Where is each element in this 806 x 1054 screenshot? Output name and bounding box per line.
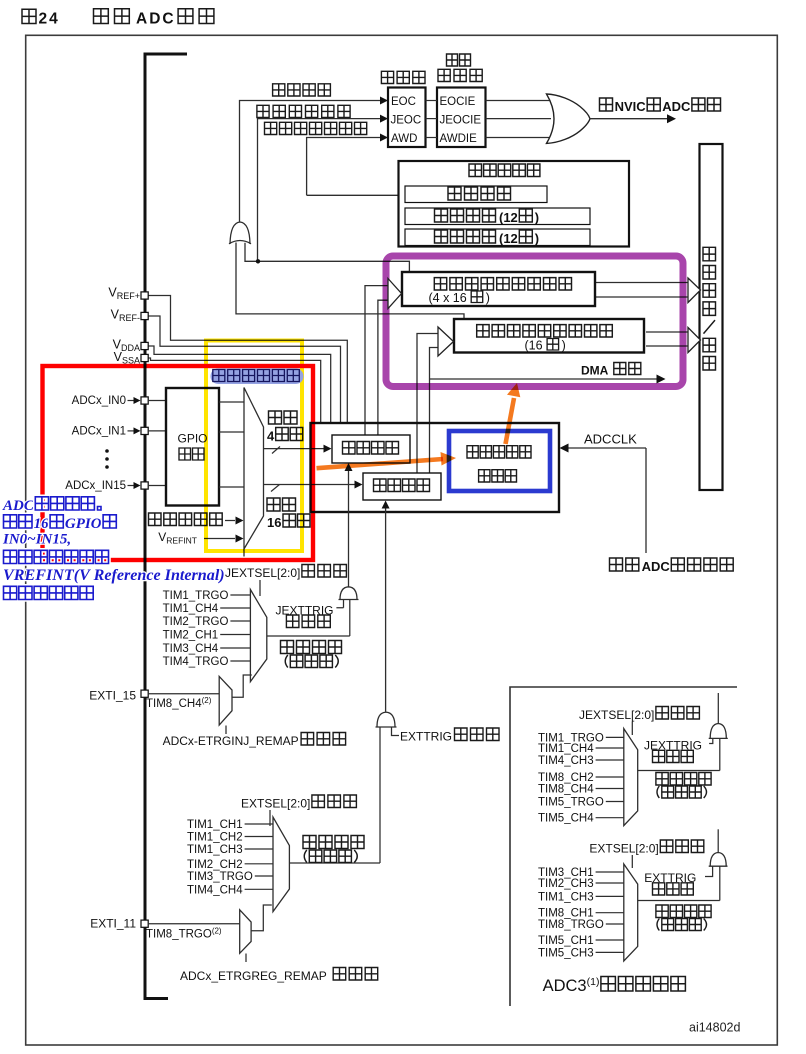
- svg-text:TIM4_CH4: TIM4_CH4: [187, 884, 243, 896]
- svg-text:IN0~IN15,: IN0~IN15,: [2, 532, 71, 548]
- svg-text:(4 x 16: (4 x 16: [429, 291, 467, 305]
- svg-text:EOCIE: EOCIE: [440, 96, 476, 108]
- svg-text:ADC: ADC: [662, 99, 691, 114]
- svg-text:ADC: ADC: [2, 498, 35, 514]
- svg-text:EOC: EOC: [391, 96, 416, 108]
- svg-text:NVIC: NVIC: [615, 99, 647, 114]
- svg-text:ADC: ADC: [136, 11, 176, 28]
- svg-text:ADC: ADC: [642, 559, 671, 574]
- svg-text:GPIO: GPIO: [177, 432, 207, 446]
- svg-text:): ): [562, 339, 566, 353]
- svg-text:TIM4_CH3: TIM4_CH3: [538, 755, 594, 767]
- svg-text:TIM1_CH4: TIM1_CH4: [163, 603, 219, 615]
- svg-text:ADCx-ETRGINJ_REMAP: ADCx-ETRGINJ_REMAP: [163, 734, 299, 748]
- svg-text:24: 24: [39, 11, 60, 28]
- svg-text:TIM1_CH2: TIM1_CH2: [187, 832, 243, 844]
- svg-text:): ): [535, 231, 539, 246]
- svg-text:JEOCIE: JEOCIE: [440, 114, 482, 126]
- svg-text:AWD: AWD: [391, 133, 417, 145]
- svg-text:TIM4_TRGO: TIM4_TRGO: [163, 656, 229, 668]
- svg-text:TIM2_CH2: TIM2_CH2: [187, 859, 243, 871]
- svg-text:TIM3_CH4: TIM3_CH4: [163, 643, 219, 655]
- svg-text:ADCx_IN15: ADCx_IN15: [65, 480, 126, 492]
- svg-text:EXTI_15: EXTI_15: [89, 689, 136, 703]
- svg-text:GPIO: GPIO: [65, 516, 102, 532]
- svg-text:TIM8_CH2: TIM8_CH2: [538, 772, 594, 784]
- svg-text:EXTI_11: EXTI_11: [90, 917, 136, 931]
- svg-text:TIM2_CH3: TIM2_CH3: [538, 878, 594, 890]
- svg-text:TIM1_CH1: TIM1_CH1: [187, 819, 243, 831]
- svg-text:JEXTSEL[2:0]: JEXTSEL[2:0]: [225, 566, 300, 580]
- svg-text:ADCCLK: ADCCLK: [584, 432, 637, 447]
- svg-text:TIM5_CH4: TIM5_CH4: [538, 813, 594, 825]
- svg-text:(16: (16: [525, 339, 543, 353]
- svg-text:TIM2_CH1: TIM2_CH1: [163, 630, 219, 642]
- svg-text:JEXTSEL[2:0]: JEXTSEL[2:0]: [579, 708, 654, 722]
- svg-text:JEOC: JEOC: [391, 114, 422, 126]
- svg-text:TIM8_CH1: TIM8_CH1: [538, 908, 594, 920]
- svg-text:EXTTRIG: EXTTRIG: [400, 730, 452, 744]
- svg-text:TIM8_CH4: TIM8_CH4: [538, 784, 594, 796]
- svg-text:TIM1_CH4: TIM1_CH4: [538, 743, 594, 755]
- svg-text:ai14802d: ai14802d: [689, 1021, 740, 1035]
- svg-text:ADCx_IN1: ADCx_IN1: [72, 425, 126, 437]
- svg-text:TIM1_CH3: TIM1_CH3: [187, 844, 243, 856]
- svg-text:AWDIE: AWDIE: [440, 133, 478, 145]
- svg-text:TIM5_CH3: TIM5_CH3: [538, 947, 594, 959]
- svg-text:16: 16: [34, 516, 50, 532]
- svg-text:EXTSEL[2:0]: EXTSEL[2:0]: [589, 842, 658, 856]
- svg-text:4: 4: [267, 429, 275, 444]
- svg-text:(12: (12: [499, 231, 518, 246]
- svg-text:): ): [535, 210, 539, 225]
- svg-text:16: 16: [267, 515, 281, 530]
- svg-text:TIM2_TRGO: TIM2_TRGO: [163, 616, 229, 628]
- svg-text:TIM5_CH1: TIM5_CH1: [538, 935, 594, 947]
- svg-text:EXTSEL[2:0]: EXTSEL[2:0]: [241, 797, 310, 811]
- svg-text:TIM3_TRGO: TIM3_TRGO: [187, 871, 253, 883]
- svg-text:TIM8_TRGO(2): TIM8_TRGO(2): [146, 927, 222, 941]
- svg-text:TIM1_TRGO: TIM1_TRGO: [163, 590, 229, 602]
- svg-text:(12: (12: [499, 210, 518, 225]
- svg-text:): ): [486, 291, 490, 305]
- svg-text:ADCx_ETRGREG_REMAP: ADCx_ETRGREG_REMAP: [180, 969, 327, 983]
- svg-text:TIM8_TRGO: TIM8_TRGO: [538, 919, 604, 931]
- svg-text:TIM1_CH3: TIM1_CH3: [538, 891, 594, 903]
- svg-text:ADCx_IN0: ADCx_IN0: [72, 395, 126, 407]
- svg-text:VREFINT(V Reference Internal): VREFINT(V Reference Internal): [3, 567, 225, 584]
- svg-text:TIM5_TRGO: TIM5_TRGO: [538, 797, 604, 809]
- svg-text:DMA: DMA: [581, 364, 609, 378]
